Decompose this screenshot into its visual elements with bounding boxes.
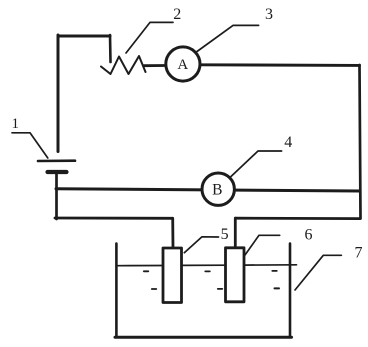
label 7 leader [295,255,341,290]
label 1 leader [12,133,48,158]
liquid surface line [117,264,297,267]
liquid dash row 1 left [144,270,149,272]
meter B (4) [202,173,234,205]
battery 1 long plate [38,159,75,162]
svg-text:2: 2 [173,6,181,23]
svg-text:6: 6 [305,226,313,243]
label 6 leader [245,235,280,255]
label 4 leader [231,151,282,177]
wire top horizontal [58,35,110,38]
label 5 leader [184,237,218,253]
svg-text:3: 3 [265,6,273,23]
wire bottom left horizontal [55,217,173,220]
liquid dash row 2 right [275,287,280,289]
wire down to electrode 5 [171,218,174,248]
label 6 [305,226,313,243]
label 3 leader [197,25,259,51]
svg-text:B: B [212,182,222,199]
svg-text:A: A [177,57,188,73]
svg-text:5: 5 [221,226,229,243]
resistor (rheostat) 2 [101,56,146,74]
label 7 [355,244,363,261]
liquid dash row 2 middle [218,288,223,290]
electrode 6 [226,248,245,302]
beaker 7 walls and bottom [115,244,292,338]
liquid dash row 1 right [272,270,277,272]
svg-text:4: 4 [284,134,292,151]
battery 1 short plate [48,170,67,174]
liquid dash row 1 middle [205,270,210,272]
wire middle horizontal through meter B [56,189,360,191]
wire bottom right horizontal [236,217,361,220]
wire down to electrode 6 [234,218,237,248]
label 1 [11,116,19,132]
wire right vertical [360,65,361,219]
wire ammeter to right corner [202,63,360,66]
ammeter A (3) [166,47,200,81]
wire vertical into rheostat [109,35,112,62]
wire rheostat to ammeter [144,64,165,67]
wire left vertical to battery [57,35,60,152]
label 5 [221,226,229,243]
electrode 5 [163,248,182,303]
liquid dash row 2 left [152,288,157,290]
label 4 [284,134,292,151]
label 2 leader [126,22,173,53]
wire battery to lower node [55,174,58,219]
svg-text:1: 1 [11,116,19,132]
svg-text:7: 7 [355,244,363,261]
label 2 [173,6,181,23]
label 3 [265,6,273,23]
